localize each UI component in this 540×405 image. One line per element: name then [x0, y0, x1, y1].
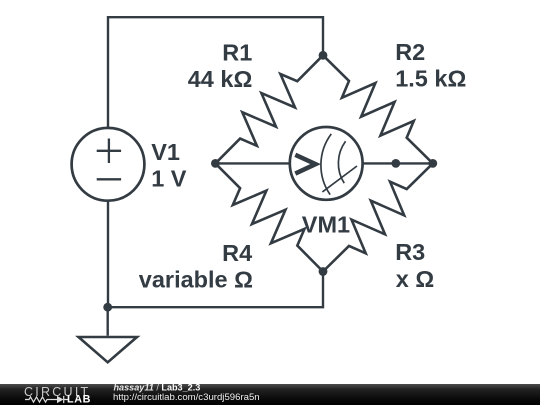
voltmeter gauge arc inner — [338, 141, 345, 183]
ground — [79, 337, 138, 362]
resistor R1 — [215, 55, 323, 163]
V1 plus sign — [97, 139, 121, 164]
wire — [108, 272, 323, 308]
resistor R4 — [215, 163, 323, 271]
wire top: V1 top to top node — [108, 17, 323, 128]
resistor R3 — [323, 163, 433, 271]
node top — [319, 51, 328, 60]
node bottom — [319, 267, 328, 276]
logo diode — [57, 396, 64, 403]
resistor R2 — [323, 55, 433, 163]
voltage source V1 — [72, 128, 145, 201]
node right — [428, 159, 437, 168]
wire voltmeter right lead — [362, 162, 433, 164]
svg-text:LAB: LAB — [67, 394, 91, 405]
voltmeter pointer > — [295, 155, 315, 174]
wire bottom: V1 bottom to ground junction and to bottom node — [107, 200, 109, 307]
node right inner — [391, 159, 400, 168]
svg-text:http://circuitlab.com/c3urdj59: http://circuitlab.com/c3urdj596ra5n — [113, 392, 260, 403]
voltmeter VM1 circle — [290, 127, 363, 200]
node left — [211, 159, 220, 168]
node ground junction — [103, 303, 112, 312]
wire voltmeter left lead — [215, 162, 290, 164]
V1 minus sign — [97, 178, 121, 180]
wire ground stem — [106, 307, 108, 336]
footer bar — [0, 384, 540, 405]
voltmeter needle — [322, 166, 357, 192]
logo squiggle resistor — [25, 397, 57, 402]
voltmeter gauge arc outer — [321, 134, 331, 195]
